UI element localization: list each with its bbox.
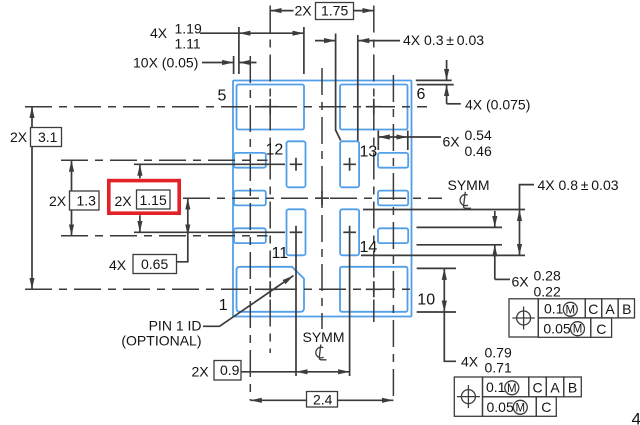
centerline horizontal SYMM [183, 197, 442, 199]
cross pin 12 [290, 158, 303, 171]
cross bottom-left pad [262, 281, 278, 297]
svg-text:10X (0.05): 10X (0.05) [133, 55, 198, 71]
left edge pad row3 [234, 228, 266, 243]
extension line pin14 center column down [349, 226, 351, 376]
extension line pin11 center row [134, 231, 285, 233]
dim 2.4 [250, 399, 393, 401]
centerline left/right pad row1 [61, 159, 268, 161]
extension pin14 top edge right [363, 209, 525, 211]
cross bottom-right pad [366, 281, 382, 297]
svg-text:12: 12 [266, 142, 284, 159]
svg-text:PIN 1 ID: PIN 1 ID [149, 318, 202, 334]
svg-text:1.3: 1.3 [77, 193, 97, 209]
extension pad left edge [238, 27, 240, 74]
dim 2X 1.15 [139, 164, 141, 178]
centerline left large pads column [269, 6, 271, 354]
inner pad pin 13 [340, 141, 359, 187]
centerline bottom pad row [25, 288, 414, 290]
dim 2X 1.3 [71, 160, 73, 236]
position symbol [517, 311, 531, 325]
svg-text:11: 11 [272, 245, 289, 262]
dim 4X 1.19/1.11 [239, 32, 304, 34]
svg-text:M: M [573, 324, 583, 336]
svg-text:2X: 2X [10, 129, 28, 145]
svg-text:1.15: 1.15 [140, 192, 167, 208]
svg-text:1.75: 1.75 [321, 3, 348, 19]
extension bottom-right pad top edge [417, 267, 456, 269]
svg-text:4: 4 [632, 410, 640, 425]
svg-text:3.1: 3.1 [38, 129, 58, 145]
svg-text:0.9: 0.9 [220, 362, 240, 378]
bottom centerline symbol [316, 345, 327, 360]
centerline left/right pad row3 [61, 235, 268, 237]
svg-text:10: 10 [417, 292, 435, 309]
svg-text:4X (0.075): 4X (0.075) [465, 97, 530, 113]
centerline right large pads column [373, 6, 375, 323]
svg-text:13: 13 [360, 144, 378, 161]
svg-text:M: M [566, 304, 576, 316]
feature control frame upper [509, 299, 635, 338]
svg-text:14: 14 [360, 239, 378, 256]
svg-text:0.65: 0.65 [141, 256, 168, 272]
red highlight box [109, 181, 179, 214]
position symbol [461, 390, 475, 404]
extension package top edge right [416, 79, 452, 81]
cross top-right pad [366, 99, 382, 115]
svg-text:0.1: 0.1 [544, 301, 564, 317]
inner pad pin 14 [340, 209, 359, 255]
svg-text:A: A [605, 301, 615, 317]
svg-text:SYMM: SYMM [303, 329, 345, 345]
pad bottom-right large [340, 267, 408, 312]
svg-text:0.54: 0.54 [465, 127, 492, 143]
svg-text:2X: 2X [295, 3, 313, 19]
feature control frame lower [454, 377, 581, 416]
svg-text:2X: 2X [115, 193, 133, 209]
inner pad pin 12 [287, 141, 306, 187]
extension pin14 bottom edge right [361, 254, 525, 256]
dim 4X 0.65 [187, 198, 189, 236]
dim 4X 0.79/0.71 [443, 268, 445, 312]
svg-text:2.4: 2.4 [313, 392, 333, 408]
svg-text:2X: 2X [192, 364, 210, 380]
svg-text:A: A [550, 379, 560, 395]
svg-text:4X 0.8 ± 0.03: 4X 0.8 ± 0.03 [538, 177, 619, 193]
left edge pad row1 [234, 153, 266, 168]
right edge pad row2 [378, 191, 408, 206]
svg-text:(OPTIONAL): (OPTIONAL) [121, 333, 201, 349]
svg-text:4X: 4X [109, 257, 127, 273]
dim 10X (0.05) [220, 62, 234, 64]
dim 2X 3.1 [31, 107, 33, 290]
svg-text:0.71: 0.71 [485, 360, 512, 376]
dim 4X 0.3±0.03 [315, 40, 336, 42]
cross pin 11 [290, 231, 303, 233]
svg-text:6X: 6X [443, 134, 461, 150]
svg-text:1.19: 1.19 [175, 21, 202, 37]
extension pin13 right [357, 35, 359, 141]
cross top-left pad [262, 99, 278, 115]
extension jogged to pin13 left [336, 34, 341, 141]
extension line pin11 center column down [295, 226, 297, 376]
extension pad top edge right [417, 84, 454, 86]
centerline left pad column [249, 56, 251, 400]
centerline top pad row [25, 106, 427, 108]
svg-text:2X: 2X [49, 193, 67, 209]
dim 6X 0.54/0.46 [377, 131, 379, 151]
svg-text:C: C [588, 301, 598, 317]
svg-text:6: 6 [417, 86, 426, 103]
svg-text:0.05: 0.05 [543, 320, 570, 336]
svg-text:SYMM: SYMM [448, 177, 490, 193]
extension package left edge (10X 0.05) [233, 56, 235, 74]
svg-text:0.1: 0.1 [486, 379, 506, 395]
svg-text:4X: 4X [461, 354, 479, 370]
pad bottom-left large (pin 1, chamfered corner) [237, 267, 305, 312]
extension pad right edge [303, 27, 305, 74]
extension right pad3 top edge [417, 226, 503, 228]
svg-text:0.46: 0.46 [465, 143, 492, 159]
cross center [315, 191, 329, 205]
svg-text:4X: 4X [150, 25, 168, 41]
cross pin 14 [343, 231, 356, 233]
svg-text:0.22: 0.22 [534, 284, 561, 300]
svg-text:M: M [516, 402, 526, 414]
dim 2X 0.9 [296, 371, 350, 373]
dim 2X 1.75 [270, 10, 293, 12]
svg-text:B: B [568, 379, 577, 395]
pad top-right large [340, 85, 408, 130]
pad top-left large [237, 85, 305, 130]
svg-text:0.79: 0.79 [485, 345, 512, 361]
svg-text:1: 1 [219, 297, 228, 314]
svg-text:B: B [622, 301, 631, 317]
extension right pad3 bottom edge [417, 244, 503, 246]
svg-text:C: C [541, 399, 551, 415]
centerline vertical SYMM [321, 68, 323, 329]
package outline [233, 81, 412, 317]
dim 6X 0.28/0.22 [494, 211, 496, 227]
cross pin 13 [343, 158, 356, 171]
pin 1 ID leader arrow [203, 276, 294, 327]
right edge pad row1 [378, 153, 408, 168]
svg-text:C: C [596, 321, 606, 337]
extension bottom-right pad bottom edge [417, 311, 456, 313]
dim 4X (0.075) [446, 60, 448, 80]
dim 4X 0.8±0.03 [519, 210, 521, 256]
svg-text:5: 5 [218, 88, 227, 105]
left edge pad row2 [234, 191, 266, 206]
svg-text:4X 0.3 ± 0.03: 4X 0.3 ± 0.03 [403, 32, 484, 48]
right centerline symbol [460, 192, 471, 209]
inner pad pin 11 [287, 209, 306, 255]
center cross marks [262, 99, 382, 298]
svg-text:1.11: 1.11 [175, 36, 201, 52]
svg-text:0.28: 0.28 [534, 268, 561, 284]
svg-text:6X: 6X [512, 274, 530, 290]
extension line pin12 center row [134, 163, 285, 165]
svg-text:0.05: 0.05 [487, 399, 514, 415]
svg-text:M: M [507, 383, 517, 395]
centerline right pad column [392, 75, 394, 400]
right edge pad row3 [378, 228, 408, 243]
svg-text:C: C [532, 379, 542, 395]
